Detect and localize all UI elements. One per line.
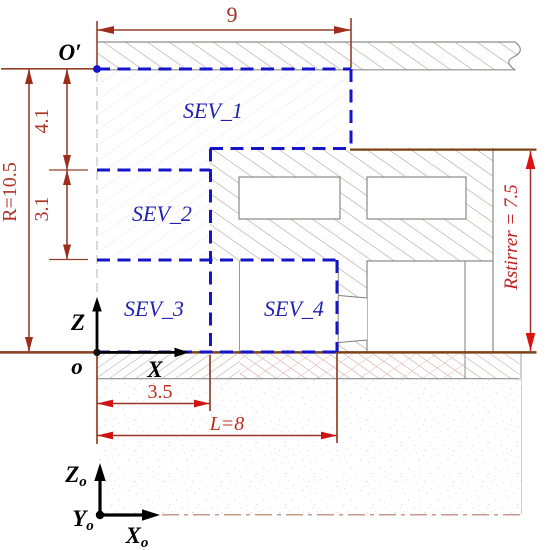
hub taper lower line bbox=[339, 340, 367, 343]
inner gray line x=239 bbox=[239, 261, 241, 378]
liquid region light hatch (SEV_1 + SEV_2 interior) bbox=[97, 69, 351, 260]
svg-text:3.1: 3.1 bbox=[31, 197, 53, 222]
X axis arrowhead bbox=[175, 348, 190, 358]
SEV bottom dashed y=352 bbox=[97, 351, 337, 354]
R dim bottom arrow bbox=[25, 337, 33, 352]
granular bed stipple region bbox=[99, 380, 521, 515]
SEV_1 boundary top dashed bbox=[97, 68, 351, 71]
cavity divider line bbox=[464, 261, 466, 352]
stirrer top edge brown line bbox=[350, 148, 537, 150]
4.1 top arrow bbox=[63, 69, 71, 84]
svg-text:9: 9 bbox=[227, 2, 238, 27]
L=8 left arrow bbox=[97, 432, 113, 440]
top wall strip top edge bbox=[97, 41, 516, 43]
SEV_4 right dashed x=337 bbox=[336, 260, 339, 352]
dimension L=8 line bbox=[97, 435, 337, 437]
Xo axis arrowhead bbox=[142, 509, 160, 520]
Rstirrer bottom arrow bbox=[526, 333, 536, 351]
svg-text:Rstirrer = 7.5: Rstirrer = 7.5 bbox=[501, 184, 522, 291]
svg-text:Z: Z bbox=[70, 310, 85, 335]
SEV left vertical dashed x=210 bbox=[209, 149, 212, 353]
hub left gray line bbox=[337, 261, 339, 352]
tick y=170 bbox=[49, 169, 88, 171]
bottom band bottom edge bbox=[97, 378, 520, 380]
svg-text:R=10.5: R=10.5 bbox=[0, 162, 21, 222]
origin O' dot bbox=[93, 65, 101, 73]
svg-text:SEV_3: SEV_3 bbox=[124, 296, 184, 321]
svg-text:Yo: Yo bbox=[72, 506, 94, 534]
X axis shaft bbox=[97, 351, 177, 354]
svg-text:L=8: L=8 bbox=[209, 413, 245, 435]
origin O dot bbox=[93, 349, 100, 356]
Z axis shaft bbox=[96, 309, 99, 352]
extension line y=352 left bbox=[0, 351, 97, 353]
SEV_1 boundary bottom dashed on stirrer top bbox=[210, 147, 351, 150]
svg-text:O′: O′ bbox=[58, 40, 81, 65]
Xo axis shaft bbox=[100, 513, 145, 516]
Rstirrer top arrow bbox=[526, 151, 536, 169]
Zo axis shaft bbox=[98, 478, 101, 515]
SEV_1/SEV_2 dashed y=170 bbox=[97, 169, 210, 172]
bed bottom centerline bbox=[100, 514, 523, 516]
3.1 bottom arrow bbox=[63, 245, 71, 260]
top wall break squiggle bbox=[509, 42, 521, 70]
R dim top arrow bbox=[25, 69, 33, 84]
bottom wall band right "\" hatch bbox=[465, 354, 520, 379]
L=8 right arrow bbox=[321, 432, 337, 440]
extension line x=210 bottom bbox=[209, 355, 211, 411]
svg-text:X: X bbox=[146, 357, 163, 382]
dimension 3.1 line bbox=[66, 170, 68, 260]
3.1 top arrow bbox=[63, 170, 71, 185]
3.5 left arrow bbox=[97, 400, 113, 408]
svg-text:Xo: Xo bbox=[125, 523, 149, 550]
dimension 9 line bbox=[97, 29, 351, 31]
vessel bottom brown line bbox=[0, 351, 537, 354]
dimension 4.1 line bbox=[66, 69, 68, 170]
top vessel wall strip hatch bbox=[97, 42, 520, 70]
extension line x=97 bottom bbox=[96, 354, 98, 444]
Z axis arrowhead bbox=[92, 297, 102, 312]
bottom wall band middle red "/" overlay bbox=[240, 354, 465, 379]
dimension 9 left arrow bbox=[97, 26, 114, 34]
blade window rect 2 bbox=[367, 177, 466, 219]
svg-text:SEV_4: SEV_4 bbox=[264, 296, 324, 321]
svg-text:o: o bbox=[71, 354, 83, 379]
bottom wall band left "/" hatch bbox=[97, 354, 240, 379]
stirrer slab right edge bbox=[492, 148, 494, 261]
svg-text:SEV_1: SEV_1 bbox=[183, 98, 243, 123]
extension line x=351 top bbox=[350, 18, 352, 68]
SEV_1 boundary right dashed bbox=[350, 69, 353, 149]
svg-text:SEV_2: SEV_2 bbox=[132, 201, 192, 226]
extension line x=97 top bbox=[96, 21, 98, 67]
3.5 right arrow bbox=[194, 400, 210, 408]
band divider gray x=465 bbox=[464, 353, 466, 379]
Zo axis arrowhead bbox=[94, 463, 105, 481]
svg-text:4.1: 4.1 bbox=[31, 109, 53, 134]
right boundary gray line x=519.5 bbox=[520, 353, 522, 515]
extension line x=337 bottom bbox=[336, 353, 338, 443]
SEV_2/SEV_3 dashed y=260 bbox=[97, 259, 337, 262]
4.1 bottom arrow bbox=[63, 155, 71, 170]
dimension R=10.5 line bbox=[28, 69, 30, 352]
extension line y=69 left bbox=[1, 68, 97, 70]
stirrer lower hub column hatched bbox=[338, 261, 367, 352]
dimension 3.5 line bbox=[97, 403, 210, 405]
hub taper quad bbox=[339, 296, 367, 343]
svg-text:3.5: 3.5 bbox=[148, 381, 173, 403]
top wall strip bottom edge bbox=[97, 69, 516, 71]
dimension 9 right arrow bbox=[334, 26, 351, 34]
hub taper upper line bbox=[339, 296, 367, 299]
centre dashed axis x=97 bbox=[96, 73, 98, 350]
tick y=259.5 bbox=[49, 259, 88, 261]
bottom wall band middle "\" hatch bbox=[240, 354, 465, 379]
dimension Rstirrer line bbox=[530, 151, 532, 351]
blade window rect 1 bbox=[239, 177, 340, 219]
stirrer upper slab hatched bbox=[210, 148, 493, 261]
lower white cavity bbox=[367, 261, 493, 352]
origin Yo dot bbox=[96, 511, 104, 519]
svg-text:Zo: Zo bbox=[64, 462, 87, 490]
